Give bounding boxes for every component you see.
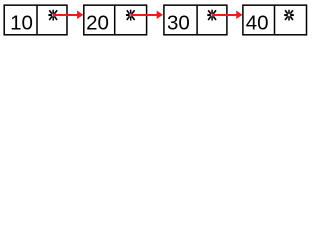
svg-text:20: 20 — [86, 12, 109, 35]
svg-text:30: 30 — [167, 12, 190, 35]
svg-text:40: 40 — [246, 12, 269, 35]
svg-text:10: 10 — [10, 12, 33, 35]
